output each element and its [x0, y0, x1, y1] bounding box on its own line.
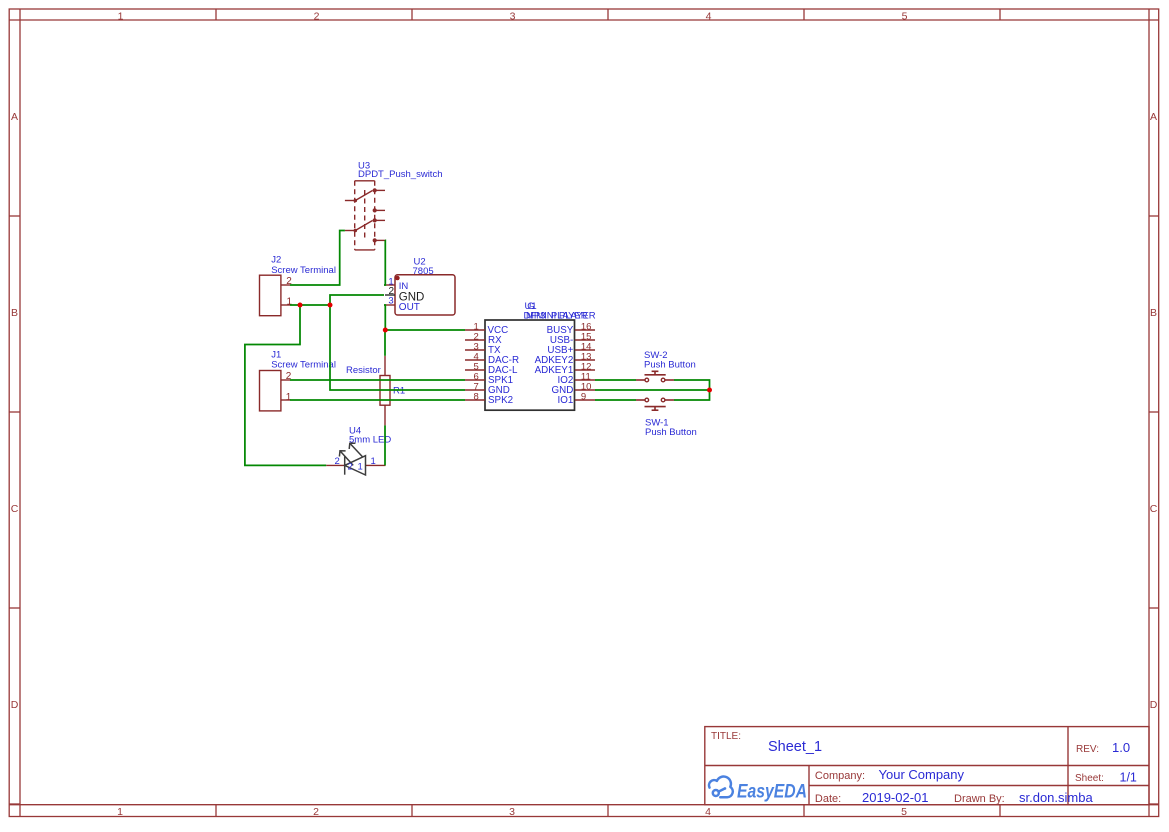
svg-text:C: C: [11, 503, 19, 515]
SW-1 pin 2 stub: [665, 399, 674, 401]
svg-text:R1: R1: [393, 386, 405, 397]
U3 body outline top edge: [355, 180, 375, 182]
U2 body rectangle: [395, 275, 455, 315]
U2 7805 regulator: [384, 275, 455, 315]
svg-text:J2: J2: [271, 255, 281, 266]
wire U2 OUT down to VCC node: [384, 305, 385, 330]
U1 left pin numbers: [474, 321, 479, 402]
junction dot VCC node: [383, 328, 388, 333]
U1 MP3 player IC body: [485, 320, 575, 410]
svg-text:1: 1: [371, 456, 376, 467]
U3 pole 2 pivot dot: [354, 229, 356, 231]
svg-text:2: 2: [348, 462, 353, 473]
wires (green): [245, 231, 710, 466]
U3 mechanical link dashed line: [364, 190, 366, 240]
U4 emission arrow 1: [341, 452, 354, 466]
junction dot J2.1 branch: [298, 303, 303, 308]
wire U1 IO2 to SW-2: [595, 379, 636, 381]
svg-text:DPDT_Push_switch: DPDT_Push_switch: [358, 169, 442, 180]
U4 pin 2 and pin 1 stubs: [326, 464, 385, 466]
svg-text:3: 3: [509, 806, 515, 818]
U3 pole 1 throw contact dots: [373, 189, 376, 192]
svg-text:TITLE:: TITLE:: [711, 731, 741, 742]
SW-2 contact circles: [645, 378, 649, 382]
U3 DPDT_Push_switch symbol: [345, 181, 385, 250]
junction dot right rail: [707, 388, 712, 393]
wire U3 throw to U2 IN: [384, 240, 385, 285]
svg-text:1: 1: [118, 10, 124, 22]
EasyEDA logo: [709, 777, 807, 803]
R1 top lead: [384, 356, 386, 376]
svg-text:EasyEDA: EasyEDA: [737, 782, 807, 803]
U3 pole 1 common pin stub: [345, 200, 355, 202]
U3 body outline left dashed edge: [354, 181, 356, 250]
U3 pole 2 switch arm: [355, 221, 372, 231]
title block: [705, 727, 1149, 805]
U1 left pin names: [488, 325, 520, 406]
SW-2 actuator bar and plunger: [645, 374, 666, 376]
U3 body outline right dashed edge: [374, 181, 376, 250]
SW-1 actuator bar and plunger: [645, 406, 666, 408]
SW-1 push button: [636, 398, 674, 410]
svg-text:3: 3: [510, 10, 516, 22]
svg-text:B: B: [1150, 307, 1157, 319]
svg-text:Company:: Company:: [815, 770, 865, 782]
wire GND branch to LED cathode: [245, 305, 326, 465]
SW-1 contact circles: [645, 398, 649, 402]
svg-text:1.0: 1.0: [1112, 740, 1130, 755]
wire R1 bottom to LED anode: [384, 425, 386, 465]
svg-text:1: 1: [286, 392, 292, 403]
svg-text:Sheet_1: Sheet_1: [768, 739, 822, 755]
U3 pole 2 throw pin stubs: [376, 219, 385, 221]
svg-text:C: C: [1150, 503, 1158, 515]
svg-text:Date:: Date:: [815, 793, 841, 805]
wire U2 GND to U1 GND: [330, 295, 465, 390]
U4 diode triangle: [345, 456, 366, 475]
J1 screw terminal labels: [271, 350, 336, 371]
wire VCC node down to R1: [384, 330, 386, 356]
U2 7805 labels: [413, 257, 434, 277]
wire U1 GND pin10 to rail junction: [595, 389, 710, 391]
svg-text:5: 5: [901, 806, 907, 818]
U1 right pin numbers: [581, 321, 592, 402]
U1 right pin stubs: [575, 330, 595, 400]
SW-2 push button labels: [644, 350, 696, 371]
svg-text:A: A: [11, 111, 18, 123]
svg-text:sr.don.simba: sr.don.simba: [1019, 790, 1093, 805]
wire VCC node to U1 VCC: [385, 329, 465, 331]
svg-text:OUT: OUT: [399, 302, 420, 313]
svg-text:B: B: [11, 307, 18, 319]
svg-text:2: 2: [314, 10, 320, 22]
svg-text:4: 4: [706, 10, 712, 22]
U3 pole 1 throw pin stubs: [376, 189, 385, 191]
J1 screw terminal: [260, 371, 291, 411]
svg-text:1/1: 1/1: [1120, 771, 1137, 785]
SW-2 push button: [636, 371, 674, 382]
resistor R1 labels: [346, 365, 405, 397]
J1 pin numbers: [286, 371, 292, 403]
svg-text:A: A: [1150, 111, 1157, 123]
svg-text:3: 3: [388, 296, 393, 307]
wire J1.2 to U1 SPK1: [290, 379, 465, 381]
svg-text:Drawn By:: Drawn By:: [954, 793, 1005, 805]
svg-text:5: 5: [902, 10, 908, 22]
wire U1 IO1 to SW-1: [595, 399, 636, 401]
U3 DPDT_Push_switch labels: [358, 161, 442, 181]
svg-text:D: D: [11, 699, 19, 711]
J2 screw terminal labels: [271, 255, 336, 277]
svg-text:Resistor: Resistor: [346, 365, 381, 376]
svg-text:2: 2: [313, 806, 319, 818]
wire SW-2 to right rail: [674, 380, 710, 400]
U4 5mm LED symbol: [326, 443, 385, 475]
U3 pole 2 common pin stub: [345, 230, 355, 232]
U4 cathode bar: [344, 457, 346, 475]
U4 LED labels: [349, 426, 391, 446]
svg-text:2: 2: [335, 456, 340, 467]
svg-text:4: 4: [705, 806, 711, 818]
J2 pin numbers: [286, 276, 292, 308]
U3 pole 2 throw contact dots: [373, 219, 376, 222]
resistor R1: [380, 356, 390, 426]
SW-1 push button labels: [645, 418, 697, 439]
U2 pin 2 stub (GND, black): [385, 294, 395, 296]
svg-text:8: 8: [474, 391, 479, 402]
U2 pin 1 and pin 3 stubs: [384, 285, 395, 305]
svg-text:Push Button: Push Button: [644, 360, 696, 371]
wire J2.1 to GND net: [290, 304, 330, 306]
SW-1 pin 1 stub: [636, 399, 645, 401]
U4 emission arrow 2: [350, 444, 362, 457]
U3 pole 1 switch arm: [355, 191, 372, 201]
R1 body: [380, 376, 390, 406]
wire J2.2 to U3 pivot: [290, 231, 345, 286]
title block values: [768, 739, 1137, 805]
wire J1.1 to U1 SPK2: [290, 399, 465, 401]
U1 right pin names: [535, 325, 574, 406]
U1 left pin stubs: [465, 330, 485, 400]
svg-text:D: D: [1150, 699, 1158, 711]
svg-text:Sheet:: Sheet:: [1075, 773, 1104, 784]
title block labels: [711, 731, 1104, 784]
U2 pin 1 polarity dot: [395, 276, 400, 281]
svg-text:IO1: IO1: [558, 395, 574, 406]
svg-text:Your Company: Your Company: [879, 767, 965, 782]
svg-text:SPK2: SPK2: [488, 395, 513, 406]
svg-text:Screw Terminal: Screw Terminal: [271, 359, 336, 370]
SW-2 pin 1 stub: [636, 379, 645, 381]
SW-2 pin 2 stub: [665, 379, 674, 381]
svg-text:2019-02-01: 2019-02-01: [862, 790, 929, 805]
junction dot GND crossing: [328, 303, 333, 308]
svg-text:9: 9: [581, 391, 586, 402]
U1 refdes overlapping labels: [524, 301, 596, 322]
R1 bottom lead: [384, 405, 386, 425]
svg-text:REV:: REV:: [1076, 744, 1099, 755]
svg-text:1: 1: [358, 462, 363, 473]
U3 pole 1 pivot dot: [354, 199, 356, 201]
svg-text:1: 1: [117, 806, 123, 818]
svg-text:Push Button: Push Button: [645, 427, 697, 438]
J2 screw terminal: [260, 275, 291, 316]
U3 body outline bottom edge: [355, 249, 375, 251]
